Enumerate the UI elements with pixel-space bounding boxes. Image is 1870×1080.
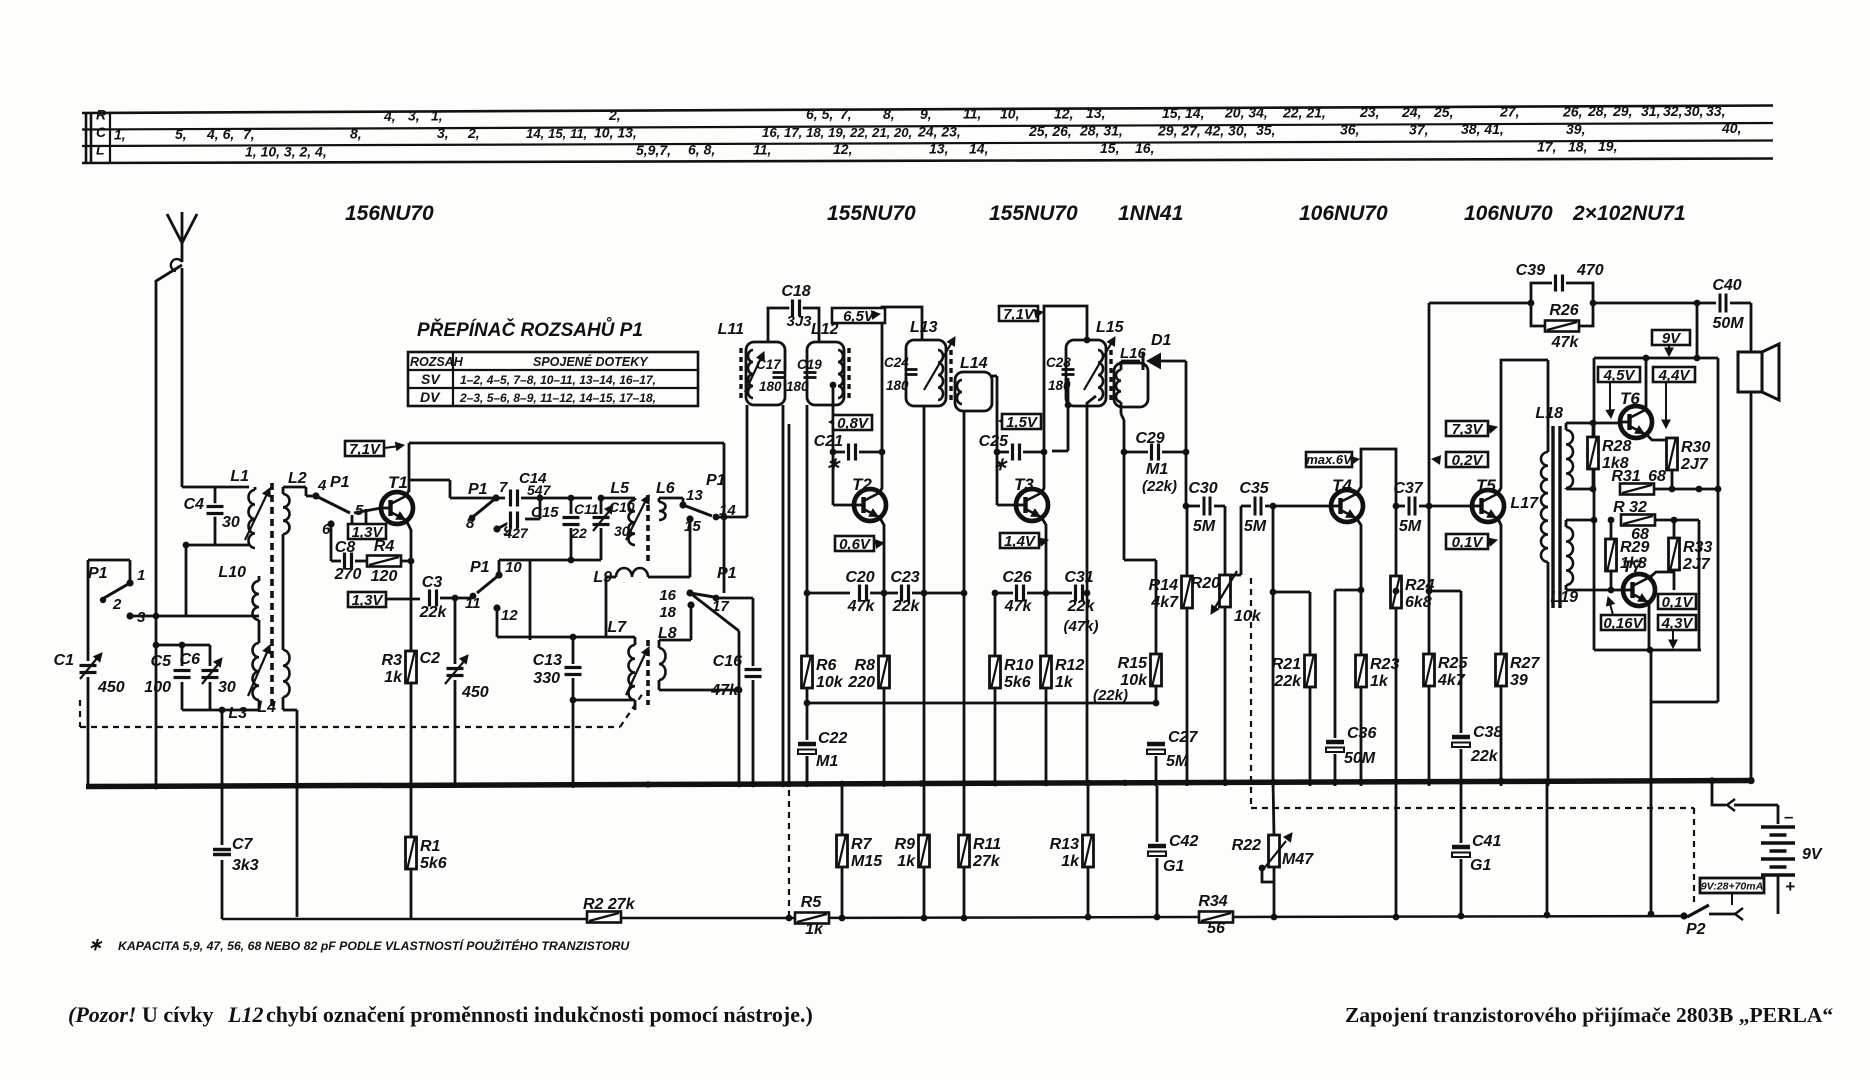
IF can L12/C19 <box>807 342 844 405</box>
svg-text:50M: 50M <box>1344 750 1376 767</box>
svg-text:1,3V: 1,3V <box>352 592 385 609</box>
capacitor C39 470 with R26 47k parallel <box>1528 300 1535 307</box>
wire rail left drop to output box <box>1593 358 1596 520</box>
resistor R15 10k (22k) <box>1151 654 1162 686</box>
svg-text:22k: 22k <box>1273 673 1302 690</box>
svg-text:19,: 19, <box>1598 138 1617 154</box>
resistor R32 68 <box>1621 515 1655 526</box>
wire T2 emitter to R8 <box>883 577 886 593</box>
capacitor C16 47k <box>752 598 755 666</box>
svg-text:chybí označení proměnnosti ind: chybí označení proměnnosti indukčnosti p… <box>266 1002 813 1027</box>
IF can L11/C17 <box>746 342 785 405</box>
svg-text:156NU70: 156NU70 <box>345 202 434 225</box>
battery 9V <box>1761 825 1795 828</box>
svg-text:R4: R4 <box>374 538 395 555</box>
wire T5 collector to L17 top <box>1498 360 1548 493</box>
resistor R25 4k7 <box>1424 654 1435 686</box>
svg-text:0,16V: 0,16V <box>1603 615 1644 632</box>
svg-text:P1: P1 <box>717 565 737 582</box>
svg-text:7,1V: 7,1V <box>349 441 382 458</box>
voltage box 9V <box>1652 330 1690 345</box>
IF can L14 <box>955 372 992 411</box>
svg-text:3k3: 3k3 <box>232 857 259 874</box>
capacitor C23 22k <box>870 592 898 595</box>
wire T4 emitter <box>1357 519 1361 575</box>
svg-text:38, 41,: 38, 41, <box>1461 121 1504 137</box>
svg-text:R30: R30 <box>1681 439 1710 456</box>
battery label box 9V:28+70mA <box>1700 878 1764 893</box>
svg-text:C21: C21 <box>814 433 843 450</box>
svg-text:9,: 9, <box>920 106 932 122</box>
rheostat R20 10k <box>1220 575 1231 607</box>
main supply bus <box>86 781 1754 787</box>
svg-text:C5: C5 <box>151 653 173 670</box>
svg-text:30,: 30, <box>1684 103 1703 119</box>
svg-text:56: 56 <box>1207 920 1225 937</box>
voltage box 1.4V <box>1000 533 1039 548</box>
svg-text:20, 34,: 20, 34, <box>1224 105 1268 121</box>
svg-text:180: 180 <box>886 378 909 393</box>
svg-text:8,: 8, <box>350 125 362 141</box>
svg-text:R11: R11 <box>973 836 1001 853</box>
volume pot R22 M47 <box>1273 781 1274 835</box>
wire T3 base <box>997 504 1016 507</box>
svg-text:1k: 1k <box>897 853 916 870</box>
svg-text:R13: R13 <box>1050 836 1079 853</box>
resistor R11 27k <box>959 835 970 867</box>
wire T1 collector <box>407 490 409 494</box>
svg-text:5,: 5, <box>175 126 187 142</box>
wire to C40 <box>1593 302 1716 305</box>
svg-text:C20: C20 <box>845 569 874 586</box>
svg-text:L2: L2 <box>288 470 307 487</box>
wire L14 secondary to T3 base <box>992 375 997 378</box>
svg-text:C17: C17 <box>756 357 782 372</box>
svg-text:0,1V: 0,1V <box>1662 594 1695 611</box>
svg-text:L15: L15 <box>1096 319 1125 336</box>
svg-text:28, 31,: 28, 31, <box>1079 123 1123 139</box>
svg-text:4: 4 <box>317 477 327 494</box>
svg-text:10: 10 <box>505 559 522 576</box>
svg-text:C: C <box>96 124 107 140</box>
svg-text:M1: M1 <box>1146 461 1168 478</box>
wire L14 cold column <box>963 411 966 593</box>
svg-text:C16: C16 <box>713 653 742 670</box>
svg-text:16: 16 <box>659 587 676 604</box>
wire T3 emitter down <box>1042 518 1046 577</box>
svg-text:12: 12 <box>501 607 518 624</box>
svg-text:(47k): (47k) <box>1063 618 1098 635</box>
svg-text:7: 7 <box>499 479 508 496</box>
svg-text:C7: C7 <box>232 836 254 853</box>
svg-text:(22k): (22k) <box>1142 478 1177 495</box>
wire L11 feed from P1-14 <box>724 516 747 519</box>
svg-text:L4: L4 <box>257 699 276 716</box>
svg-text:C13: C13 <box>533 652 562 669</box>
capacitor C25 <box>994 449 1001 456</box>
svg-text:R22: R22 <box>1232 837 1261 854</box>
svg-text:C2: C2 <box>420 650 441 667</box>
capacitor C31 22k (47k) <box>1072 584 1085 603</box>
resistor R13 1k <box>1087 786 1090 835</box>
dashed link volume control to P2 <box>1250 578 1252 808</box>
svg-text:155NU70: 155NU70 <box>827 202 916 225</box>
capacitor C38 22k <box>1452 733 1470 749</box>
svg-text:R14: R14 <box>1149 577 1178 594</box>
capacitor C7 3k3 <box>212 846 232 858</box>
wire below-bus column x1396 <box>1395 786 1398 917</box>
svg-text:450: 450 <box>461 684 489 701</box>
svg-text:P1: P1 <box>88 565 108 582</box>
svg-text:R6: R6 <box>816 657 837 674</box>
svg-text:C23: C23 <box>890 569 919 586</box>
svg-text:C41: C41 <box>1472 833 1501 850</box>
voltage box 1.3V at C3 <box>348 592 386 607</box>
svg-text:22, 21,: 22, 21, <box>1282 104 1326 120</box>
wire T2 collector up <box>880 307 922 492</box>
wire output supply rail <box>1594 357 1718 360</box>
resistor R24 6k8 <box>1391 576 1402 608</box>
svg-text:106NU70: 106NU70 <box>1464 202 1553 225</box>
svg-text:18: 18 <box>659 604 676 621</box>
svg-text:C28: C28 <box>1046 355 1071 370</box>
svg-text:1,4V: 1,4V <box>1004 533 1037 550</box>
pot R22 wiper tap <box>1262 868 1274 882</box>
svg-text:R31: R31 <box>1611 468 1640 485</box>
capacitor C42 G1 <box>1156 786 1159 842</box>
wire L18 bottom to R31 <box>1565 488 1568 489</box>
svg-text:39,: 39, <box>1566 121 1585 137</box>
svg-text:C18: C18 <box>781 283 810 300</box>
svg-text:1k: 1k <box>1061 853 1080 870</box>
resistor R21 22k <box>1273 591 1310 594</box>
svg-text:1NN41: 1NN41 <box>1118 202 1183 225</box>
svg-text:4,3V: 4,3V <box>1661 615 1695 632</box>
svg-text:1, 10, 3, 2, 4,: 1, 10, 3, 2, 4, <box>245 143 327 159</box>
svg-text:L5: L5 <box>610 480 630 497</box>
wire L12 tap to T2 base <box>830 382 837 389</box>
svg-text:37,: 37, <box>1409 121 1428 137</box>
switch P2 <box>1687 905 1709 917</box>
svg-text:R5: R5 <box>801 894 823 911</box>
voltage box max.6V <box>1306 452 1352 467</box>
capacitor C5 100 <box>181 645 184 666</box>
svg-text:9V: 9V <box>1802 846 1823 863</box>
wire L15 coil tap column to bus <box>1087 396 1096 786</box>
resistor R31 68 <box>1620 484 1654 495</box>
wire T7 emitter to R33 column <box>1649 572 1674 578</box>
svg-text:∗: ∗ <box>88 935 103 954</box>
wire contact16 to L8 column <box>690 593 739 631</box>
svg-text:KAPACITA 5,9, 47, 56, 68: KAPACITA 5,9, 47, 56, 68 NEBO 82 pF PODL… <box>118 938 630 953</box>
wire supply rail drop x1429 <box>1428 303 1431 506</box>
capacitor C8 270 <box>330 524 333 561</box>
svg-text:C25: C25 <box>979 433 1009 450</box>
wire C29 left down to R15 <box>1123 452 1126 560</box>
coil L19 secondary bottom <box>1566 527 1573 585</box>
wire T7 collector down <box>1648 603 1651 650</box>
voltage box 7.1V at T1 <box>345 441 384 456</box>
svg-text:M47: M47 <box>1282 851 1314 868</box>
resistor R27 39 <box>1496 654 1507 686</box>
svg-text:+: + <box>1785 877 1795 896</box>
svg-text:C27: C27 <box>1168 729 1198 746</box>
band switch table <box>408 352 698 406</box>
capacitor C40 50M <box>1717 293 1729 314</box>
wire antenna down <box>181 268 184 487</box>
wire C23 to L13 cold column <box>923 406 926 593</box>
svg-text:39: 39 <box>1510 672 1528 689</box>
wire L12 cold to R6 column <box>806 405 809 656</box>
capacitor C3 22k <box>426 589 439 608</box>
capacitor C4 30 <box>214 487 217 504</box>
svg-text:47k: 47k <box>710 682 739 699</box>
core L13 dashed <box>949 350 952 402</box>
svg-text:15,: 15, <box>1162 105 1181 121</box>
resistor R34 56 <box>1199 912 1233 923</box>
svg-text:R34: R34 <box>1198 893 1227 910</box>
svg-text:0,8V: 0,8V <box>837 415 870 432</box>
svg-text:1,: 1, <box>431 108 443 124</box>
capacitor C35 5M <box>1241 505 1251 508</box>
svg-text:427: 427 <box>503 525 529 541</box>
battery connector top <box>1727 799 1735 811</box>
svg-text:R8: R8 <box>855 657 876 674</box>
resistor R4 120 <box>355 560 367 563</box>
core L15 dashed <box>1109 350 1112 402</box>
wire C7 column <box>221 710 224 786</box>
capacitor C18 3J3 bridge <box>768 308 790 342</box>
svg-text:36,: 36, <box>1340 122 1359 138</box>
svg-text:30: 30 <box>218 679 236 696</box>
capacitor C14 547 <box>496 497 505 500</box>
svg-text:22: 22 <box>570 525 587 541</box>
svg-text:SPOJENÉ DOTEKY: SPOJENÉ DOTEKY <box>533 354 649 369</box>
wire speaker return <box>1750 392 1753 779</box>
svg-text:1,: 1, <box>114 126 126 142</box>
oscillator box top wire <box>409 442 724 445</box>
svg-text:max.6V: max.6V <box>1306 452 1353 467</box>
capacitor C36 50M <box>1326 738 1344 754</box>
resistor R3 1k <box>406 651 417 683</box>
svg-text:6, 8,: 6, 8, <box>688 142 715 158</box>
svg-text:9V: 9V <box>1662 330 1682 347</box>
svg-text:R27: R27 <box>1510 655 1540 672</box>
coil L3 variable <box>253 643 259 700</box>
wire T1 collector to P1-7 <box>409 479 450 482</box>
IF can L15/C28 <box>1066 340 1106 406</box>
wire T3 emitter to R12 <box>1045 577 1048 593</box>
wire output bottom to ground rail <box>1651 701 1718 704</box>
svg-text:29, 27, 42, 30,: 29, 27, 42, 30, <box>1157 122 1248 138</box>
wire L16 top to D1 <box>1120 361 1123 370</box>
voltage box 0.2V <box>1446 452 1488 467</box>
svg-text:12,: 12, <box>833 141 852 157</box>
wire P1-4 from L2 <box>305 487 308 496</box>
wire L8 top to contact 18 <box>659 639 691 642</box>
svg-text:4,4V: 4,4V <box>1658 367 1692 384</box>
svg-text:P1: P1 <box>468 481 488 498</box>
svg-text:C24: C24 <box>884 355 909 370</box>
svg-text:P1: P1 <box>330 474 350 491</box>
svg-text:32,: 32, <box>1663 103 1682 119</box>
IF can L16 <box>1114 363 1148 407</box>
svg-text:10k: 10k <box>1234 608 1262 625</box>
output box bottom <box>1593 520 1596 650</box>
wire C11/C10 bottom join <box>530 559 601 562</box>
svg-text:Zapojení tranzistorového přijí: Zapojení tranzistorového přijímače 2803B… <box>1345 1003 1833 1027</box>
core L11 dashed <box>739 348 742 400</box>
svg-text:L19: L19 <box>1550 589 1578 606</box>
svg-text:U cívky: U cívky <box>142 1002 214 1027</box>
svg-text:C31: C31 <box>1064 569 1093 586</box>
svg-text:C1: C1 <box>54 652 75 669</box>
svg-text:30: 30 <box>222 514 240 531</box>
wire osc box right to bus <box>788 424 791 786</box>
resistor R1 5k6 <box>410 786 413 837</box>
battery connector bottom <box>1735 908 1743 920</box>
svg-text:16,: 16, <box>1135 140 1154 156</box>
wire C30 right down to R20 <box>1214 505 1225 508</box>
coil L4 <box>283 650 290 697</box>
capacitor C29 M1 <box>1121 449 1128 456</box>
svg-text:470: 470 <box>1576 262 1604 279</box>
capacitor C1 450 variable <box>79 662 98 675</box>
svg-text:D1: D1 <box>1151 332 1172 349</box>
svg-text:47k: 47k <box>1551 334 1580 351</box>
wire T1 emitter down <box>407 522 411 545</box>
svg-text:10, 13,: 10, 13, <box>594 125 637 141</box>
svg-text:17,: 17, <box>1537 138 1556 154</box>
voltage box 4.5V <box>1598 367 1640 382</box>
svg-text:7,: 7, <box>840 106 852 122</box>
wire antenna branch left <box>156 265 182 786</box>
svg-text:L18: L18 <box>1535 405 1563 422</box>
svg-text:4, 6,: 4, 6, <box>206 126 234 142</box>
svg-text:155NU70: 155NU70 <box>989 202 1078 225</box>
svg-text:L6: L6 <box>656 480 675 497</box>
wire T2 emitter down <box>880 518 884 577</box>
svg-text:R7: R7 <box>851 836 873 853</box>
wire input top <box>182 486 249 489</box>
svg-text:R 32: R 32 <box>1613 499 1647 516</box>
wire bottom rail left segment <box>222 918 587 921</box>
capacitor C15 427 <box>507 511 520 530</box>
voltage box 7.1V second <box>999 306 1038 321</box>
wire L16 bottom column <box>1120 402 1123 414</box>
svg-text:2×102NU71: 2×102NU71 <box>1572 202 1686 225</box>
svg-text:14,: 14, <box>1185 105 1204 121</box>
voltage box 1.3V at T1 base <box>365 509 368 524</box>
svg-text:0,6V: 0,6V <box>839 536 872 553</box>
svg-text:2,: 2, <box>608 107 621 123</box>
svg-text:23,: 23, <box>1359 104 1379 120</box>
core L5/L6 <box>646 495 650 562</box>
svg-text:C29: C29 <box>1135 430 1164 447</box>
svg-text:50M: 50M <box>1712 315 1744 332</box>
capacitor C41 G1 <box>1460 786 1463 843</box>
svg-text:1k: 1k <box>1055 674 1074 691</box>
wire R4 to T1 emitter <box>408 558 415 565</box>
svg-text:33,: 33, <box>1706 103 1725 119</box>
svg-text:5M: 5M <box>1193 518 1216 535</box>
svg-text:R29: R29 <box>1620 539 1649 556</box>
svg-text:R3: R3 <box>382 652 403 669</box>
svg-text:7,: 7, <box>243 126 255 142</box>
svg-text:2: 2 <box>112 596 122 613</box>
wire T5 emitter down <box>1498 519 1501 654</box>
svg-text:2J7: 2J7 <box>1680 456 1709 473</box>
svg-text:10k: 10k <box>816 674 844 691</box>
svg-text:14, 15, 11,: 14, 15, 11, <box>526 126 587 141</box>
svg-text:L: L <box>96 142 105 158</box>
svg-text:24, 23,: 24, 23, <box>917 123 961 139</box>
capacitor C6 30 variable <box>209 645 212 666</box>
resistor R14 4k7 <box>1186 506 1189 576</box>
svg-text:L14: L14 <box>960 355 988 372</box>
svg-text:∗: ∗ <box>992 454 1008 474</box>
svg-text:–: – <box>1784 807 1794 826</box>
svg-text:4,: 4, <box>383 108 396 124</box>
wire output right column <box>1717 358 1720 489</box>
wire D1 to C29 right column <box>1185 361 1188 506</box>
capacitor C13 330 <box>572 637 575 664</box>
svg-text:1k: 1k <box>1370 673 1389 690</box>
wire R32 node right <box>1674 519 1699 522</box>
svg-text:22k: 22k <box>1067 598 1096 615</box>
svg-text:L10: L10 <box>218 564 246 581</box>
svg-text:1: 1 <box>137 567 145 584</box>
svg-text:47k: 47k <box>847 598 876 615</box>
svg-text:13,: 13, <box>929 141 948 157</box>
svg-text:4,5V: 4,5V <box>1603 367 1637 384</box>
voltage box 6.5V <box>832 308 885 323</box>
svg-text:68: 68 <box>1648 468 1666 485</box>
svg-text:R28: R28 <box>1602 438 1631 455</box>
resistor R30 2J7 <box>1671 438 1674 440</box>
svg-text:M15: M15 <box>851 853 883 870</box>
svg-text:R10: R10 <box>1004 657 1033 674</box>
svg-text:27k: 27k <box>972 853 1001 870</box>
wire C38 branch <box>1429 590 1461 593</box>
svg-text:29,: 29, <box>1612 103 1632 119</box>
voltage box 7.3V <box>1446 421 1488 436</box>
svg-text:3J3: 3J3 <box>786 313 812 330</box>
resistor R33 2J7 <box>1673 520 1676 538</box>
antenna <box>181 212 184 243</box>
svg-text:R23: R23 <box>1370 656 1399 673</box>
component index table frame <box>82 106 1773 114</box>
svg-text:7,3V: 7,3V <box>1452 421 1485 438</box>
IF can L13/C24 <box>906 340 946 406</box>
svg-text:7,1V: 7,1V <box>1003 306 1036 323</box>
svg-text:12,: 12, <box>1054 105 1073 121</box>
svg-text:R9: R9 <box>895 836 916 853</box>
svg-text:106NU70: 106NU70 <box>1299 202 1388 225</box>
svg-text:R26: R26 <box>1549 302 1578 319</box>
dashed link left <box>788 790 790 918</box>
svg-text:M1: M1 <box>816 753 838 770</box>
resistor R9 1k <box>919 835 930 867</box>
svg-text:P1: P1 <box>470 559 490 576</box>
bottom rail right segment <box>789 917 1199 918</box>
voltage box 0.8V <box>829 418 837 426</box>
svg-text:8,: 8, <box>883 106 895 122</box>
svg-text:SV: SV <box>421 371 441 387</box>
svg-text:L11: L11 <box>718 321 744 338</box>
wire below-bus column x1547 <box>1546 781 1549 915</box>
resistor R7 M15 <box>841 786 844 835</box>
